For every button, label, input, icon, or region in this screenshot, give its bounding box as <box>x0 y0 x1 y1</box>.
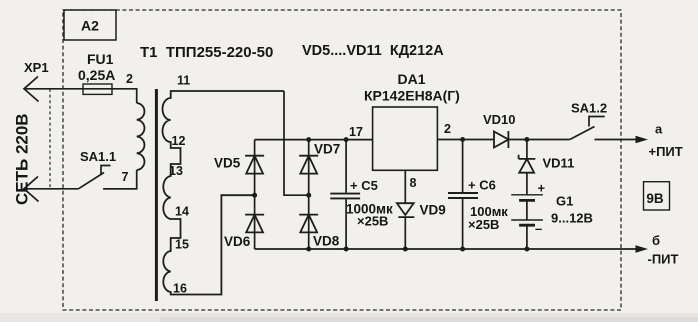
svg-text:FU1: FU1 <box>87 51 114 67</box>
svg-text:8: 8 <box>410 176 417 190</box>
svg-text:VD8: VD8 <box>313 234 340 249</box>
svg-text:SA1.2: SA1.2 <box>571 101 607 116</box>
svg-text:СЕТЬ 220В: СЕТЬ 220В <box>13 113 32 205</box>
svg-text:T1 ТПП255-220-50: T1 ТПП255-220-50 <box>140 44 273 61</box>
svg-text:2: 2 <box>126 72 133 86</box>
svg-text:9В: 9В <box>646 191 664 206</box>
svg-text:+ C5: + C5 <box>350 178 378 193</box>
svg-text:+ПИТ: +ПИТ <box>649 144 683 159</box>
svg-text:9...12В: 9...12В <box>551 211 593 226</box>
svg-text:DA1: DA1 <box>398 71 426 87</box>
svg-text:17: 17 <box>349 125 363 139</box>
svg-text:VD5: VD5 <box>214 156 241 171</box>
svg-text:2: 2 <box>444 122 451 136</box>
svg-text:×25В: ×25В <box>468 217 499 232</box>
svg-text:12: 12 <box>172 134 186 148</box>
svg-text:–: – <box>535 221 542 236</box>
svg-text:11: 11 <box>177 74 190 88</box>
svg-text:+: + <box>538 181 546 196</box>
svg-text:VD6: VD6 <box>224 234 251 249</box>
svg-text:0,25A: 0,25A <box>78 67 115 83</box>
svg-text:16: 16 <box>173 282 187 296</box>
svg-text:VD11: VD11 <box>543 156 575 171</box>
svg-text:+ C6: + C6 <box>468 178 496 193</box>
svg-text:SA1.1: SA1.1 <box>80 149 116 164</box>
svg-text:VD5....VD11 КД212А: VD5....VD11 КД212А <box>302 43 444 59</box>
svg-text:15: 15 <box>175 238 189 252</box>
svg-text:КР142ЕН8А(Г): КР142ЕН8А(Г) <box>364 88 460 104</box>
svg-text:-ПИТ: -ПИТ <box>648 252 679 267</box>
svg-text:VD9: VD9 <box>420 203 446 218</box>
svg-text:XP1: XP1 <box>24 60 49 75</box>
svg-text:A2: A2 <box>81 18 99 34</box>
svg-text:7: 7 <box>122 170 129 184</box>
svg-text:а: а <box>655 122 663 137</box>
svg-text:×25В: ×25В <box>357 214 388 229</box>
svg-text:VD10: VD10 <box>483 112 516 127</box>
svg-text:14: 14 <box>175 205 189 219</box>
svg-text:VD7: VD7 <box>314 142 340 157</box>
svg-text:G1: G1 <box>556 194 573 209</box>
svg-text:б: б <box>652 233 660 248</box>
svg-text:13: 13 <box>169 164 183 178</box>
